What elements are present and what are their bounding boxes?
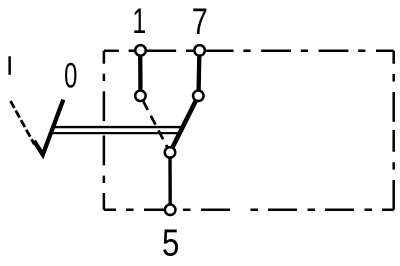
svg-text:7: 7 xyxy=(192,2,208,43)
svg-text:5: 5 xyxy=(162,223,179,265)
svg-text:0: 0 xyxy=(64,57,77,96)
svg-text:1: 1 xyxy=(132,2,146,41)
